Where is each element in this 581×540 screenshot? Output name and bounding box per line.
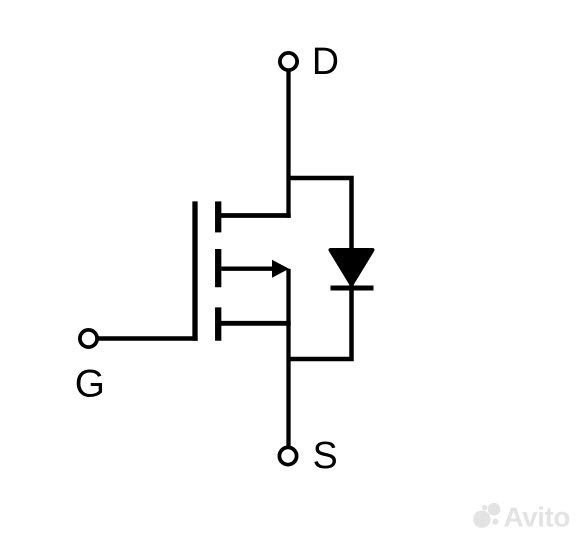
terminal D — [280, 53, 297, 70]
wire drain horizontal — [218, 213, 291, 218]
terminal S — [279, 447, 296, 464]
svg-text:S: S — [313, 434, 338, 476]
wire source horizontal — [218, 321, 291, 326]
wire gate — [98, 336, 198, 340]
channel dash bottom — [215, 307, 221, 340]
svg-text:D: D — [312, 40, 339, 82]
svg-text:Avito: Avito — [504, 501, 571, 532]
gate line — [192, 201, 197, 340]
body arrowhead — [272, 260, 289, 278]
watermark avito logo circle top-right — [488, 503, 501, 516]
channel dash top — [215, 201, 221, 232]
wire source vertical — [286, 269, 290, 446]
body arrow line — [221, 267, 275, 271]
wire drain vertical — [286, 71, 290, 218]
watermark avito logo circle small right — [492, 519, 498, 525]
watermark avito logo circle small top-left — [482, 505, 487, 510]
wire diode branch (top, right vertical, bottom) — [289, 178, 352, 359]
diode D1 cathode bar — [331, 286, 374, 291]
channel dash middle — [215, 249, 221, 287]
svg-text:G: G — [75, 363, 105, 406]
watermark avito logo circle big — [473, 511, 490, 528]
terminal G — [80, 330, 97, 347]
diode D1 triangle — [331, 250, 373, 285]
